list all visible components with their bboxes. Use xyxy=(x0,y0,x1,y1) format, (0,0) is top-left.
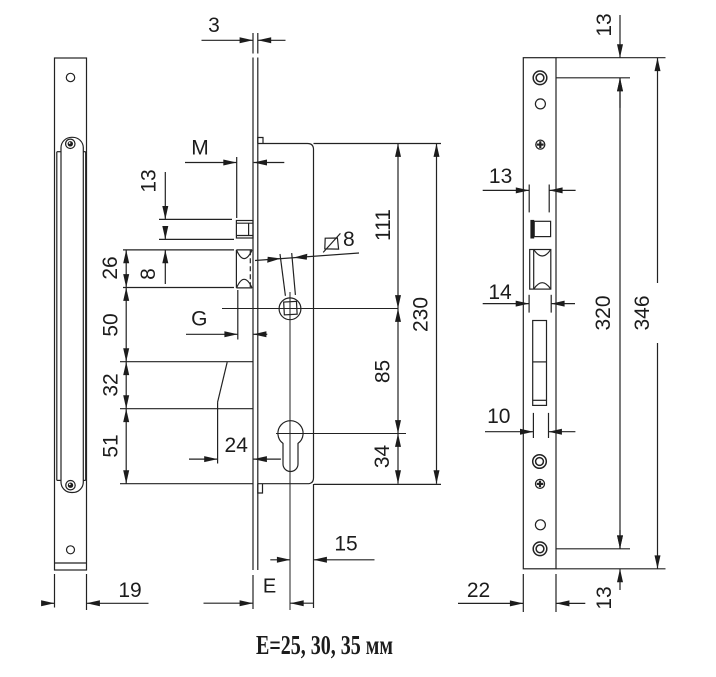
countersunk hole mid xyxy=(533,455,547,469)
dimension 85 line and arrows xyxy=(397,309,399,434)
svg-text:13: 13 xyxy=(593,586,616,609)
dimension 320 line and arrows xyxy=(619,78,621,549)
svg-text:3: 3 xyxy=(208,14,220,37)
deadbolt top edge xyxy=(120,361,253,363)
striker frame bottom stubs xyxy=(57,479,61,481)
dimension 34 line and arrows xyxy=(397,434,399,484)
dimension 10 line and arrows xyxy=(485,431,533,433)
deadbolt opening front xyxy=(533,321,547,406)
striker top mounting hole xyxy=(66,73,74,81)
svg-text:13: 13 xyxy=(489,165,512,188)
svg-text:346: 346 xyxy=(631,295,654,330)
svg-text:51: 51 xyxy=(100,434,123,457)
deadbolt slant edge xyxy=(218,362,228,402)
left dimension chain line xyxy=(125,250,127,484)
svg-text:10: 10 xyxy=(487,405,510,428)
dimension 14 line and arrows xyxy=(483,303,529,305)
dimension G extension line xyxy=(237,290,239,340)
dimension 24 line and arrows xyxy=(189,458,218,460)
countersunk hole bottom xyxy=(533,542,547,556)
square 8 leader line xyxy=(255,253,359,261)
dimension 22 line and arrows xyxy=(458,602,523,604)
cylinder horizontal centerline xyxy=(276,433,406,435)
dimension M extension line xyxy=(236,157,238,218)
dimension 13 top-right line and arrows xyxy=(619,15,621,58)
svg-text:111: 111 xyxy=(372,209,395,241)
euro cylinder keyhole xyxy=(278,421,303,472)
body top notch xyxy=(258,138,263,144)
dimension E line and arrows xyxy=(204,602,254,604)
deadbolt bottom edge xyxy=(120,408,253,410)
body bottom notch xyxy=(258,484,263,493)
extension line body top (111/230) xyxy=(314,143,442,145)
dimension 32 arrows xyxy=(123,362,129,375)
extension line body bottom (34/230) xyxy=(314,483,441,485)
svg-text:M: M xyxy=(191,137,209,160)
striker frame top stubs xyxy=(57,151,61,153)
square 8 arrows xyxy=(267,257,281,263)
svg-text:14: 14 xyxy=(488,281,512,304)
extension line 51 bottom xyxy=(120,483,253,485)
striker inner tab (rounded insert) xyxy=(61,137,83,492)
svg-text:320: 320 xyxy=(592,295,615,330)
dimension 14 extension lines xyxy=(528,295,530,313)
roller bolt xyxy=(236,249,252,251)
dimension 19 extension lines xyxy=(54,574,56,608)
striker bottom edge inner line xyxy=(55,562,87,564)
dimension E tick xyxy=(252,575,254,609)
svg-text:85: 85 xyxy=(372,360,395,383)
latch opening front xyxy=(534,221,550,236)
follower hub circle xyxy=(279,298,301,320)
dimension 51 arrows xyxy=(123,409,129,422)
svg-text:19: 19 xyxy=(118,579,141,602)
dimension 26 arrows xyxy=(123,250,129,263)
plain hole upper xyxy=(535,99,545,109)
left column: dimension 13 extension lines xyxy=(159,218,232,220)
extension line roller top (26/8) xyxy=(123,249,234,251)
countersunk hole top xyxy=(533,71,547,85)
dimension 13 bottom-right line and arrows xyxy=(619,530,621,549)
striker bottom mounting hole xyxy=(67,546,75,554)
svg-text:34: 34 xyxy=(371,445,394,469)
striker bottom screw xyxy=(66,481,75,490)
lock body outline xyxy=(258,144,314,484)
faceplate front line xyxy=(252,58,254,571)
svg-text:G: G xyxy=(191,308,207,331)
svg-text:Е=25, 30, 35 мм: Е=25, 30, 35 мм xyxy=(256,630,393,660)
striker inner frame right line xyxy=(85,152,87,481)
vertical centerline through hub and cylinder xyxy=(289,292,291,610)
striker plate outline xyxy=(55,58,87,570)
screw lower xyxy=(536,479,545,488)
dimension 346 line and arrows xyxy=(657,58,659,283)
latch bolt head xyxy=(236,221,253,239)
dimension 13 mid extension lines xyxy=(528,185,530,213)
dimension 10 extension lines xyxy=(532,413,534,438)
dimension 8 arrows xyxy=(164,230,166,239)
dimension G line and arrows xyxy=(186,333,238,335)
faceplate front outline xyxy=(523,58,556,569)
svg-text:13: 13 xyxy=(593,13,616,36)
svg-text:24: 24 xyxy=(225,434,249,457)
extension line cylinder backset (15) xyxy=(313,484,315,608)
svg-text:32: 32 xyxy=(100,373,123,396)
dimension 111 line and arrows xyxy=(397,144,399,309)
svg-text:26: 26 xyxy=(99,256,122,279)
dimension 19 line and arrows xyxy=(44,602,55,604)
svg-text:15: 15 xyxy=(334,533,357,556)
square symbol xyxy=(325,238,339,249)
square 8 slant extension line 1 xyxy=(280,254,285,296)
dimension 13 line and arrows xyxy=(164,172,166,219)
striker inner frame left line xyxy=(56,152,58,481)
svg-text:13: 13 xyxy=(138,169,161,192)
dimension 24 extension line xyxy=(217,410,219,464)
dimension 22 extension lines xyxy=(522,574,524,612)
dimension 13 mid line and arrows xyxy=(483,189,530,191)
svg-text:22: 22 xyxy=(467,579,490,602)
hub horizontal centerline xyxy=(222,308,398,310)
dimension 13 top-right extension lines xyxy=(556,57,666,59)
dimension 15 line and arrows xyxy=(270,559,290,561)
svg-text:E: E xyxy=(263,576,276,598)
striker top screw xyxy=(66,139,75,148)
svg-text:8: 8 xyxy=(343,228,355,251)
extension line roller bottom (26/50) xyxy=(123,287,234,289)
svg-text:8: 8 xyxy=(137,268,160,280)
dimension 13 bottom-right extension lines xyxy=(556,548,630,550)
svg-text:50: 50 xyxy=(100,313,123,336)
faceplate back line xyxy=(257,58,259,571)
svg-text:230: 230 xyxy=(410,297,433,332)
dimension 3 ticks xyxy=(252,33,254,54)
plain hole lower xyxy=(535,520,545,530)
dimension 50 arrows xyxy=(123,288,129,301)
dimension M line and arrows xyxy=(185,162,237,164)
roller opening front xyxy=(530,250,551,290)
follower hub square xyxy=(284,301,297,314)
dimension 3 line and arrows xyxy=(202,39,254,41)
dimension 230 line and arrows xyxy=(436,144,438,484)
screw upper xyxy=(536,140,545,149)
square 8 slant extension line 2 xyxy=(292,253,296,295)
roller bolt hidden edge (dashed) xyxy=(249,250,251,288)
